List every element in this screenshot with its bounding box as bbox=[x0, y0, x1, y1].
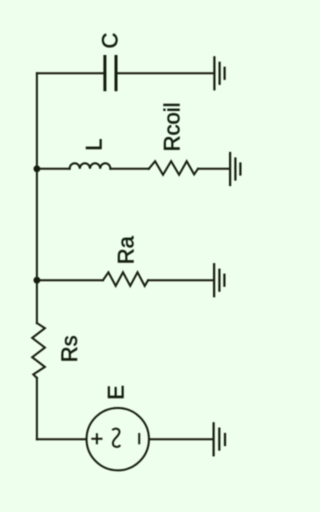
svg-text:Ra: Ra bbox=[113, 235, 138, 264]
svg-text:C: C bbox=[98, 33, 123, 49]
svg-text:L: L bbox=[82, 138, 107, 150]
svg-text:Rs: Rs bbox=[57, 335, 82, 362]
svg-text:E: E bbox=[104, 385, 129, 400]
svg-text:Rcoil: Rcoil bbox=[160, 102, 185, 151]
